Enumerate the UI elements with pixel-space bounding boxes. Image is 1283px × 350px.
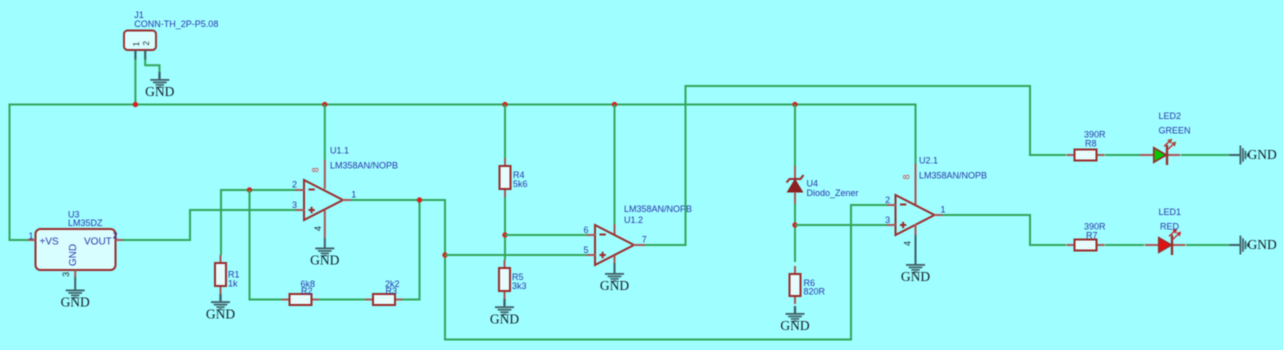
ground stem below R6 bbox=[794, 306, 796, 313]
wire U1.2 pin8 from VCC bus bbox=[614, 105, 616, 225]
LED LED1 RED bbox=[1145, 229, 1186, 255]
junction at R4/R5 divider to pin6 bbox=[502, 232, 507, 237]
svg-text:U1.2: U1.2 bbox=[624, 215, 643, 225]
ground GND symbol at U3 bbox=[61, 290, 90, 310]
wire U2.1 output to R7 LED1 row bbox=[943, 215, 1067, 245]
wire divider junction to U1.2 pin6 bbox=[505, 234, 587, 236]
svg-text:GREEN: GREEN bbox=[1159, 126, 1191, 136]
svg-text:GND: GND bbox=[1248, 237, 1277, 252]
wire LED1 to right ground bbox=[1186, 244, 1230, 246]
resistor R4 5k6 bbox=[500, 158, 511, 197]
svg-text:3: 3 bbox=[61, 272, 71, 277]
svg-text:GND: GND bbox=[780, 318, 809, 333]
wire VCC bus to R4 bbox=[504, 105, 506, 159]
svg-text:R8: R8 bbox=[1085, 139, 1097, 149]
pin stub U2.1 pin2 bbox=[887, 204, 897, 206]
svg-text:7: 7 bbox=[642, 235, 647, 245]
svg-text:LM358AN/NOPB: LM358AN/NOPB bbox=[919, 171, 987, 181]
diode U4 Diodo_Zener bbox=[787, 166, 804, 204]
ground GND symbol at R5 bbox=[490, 306, 519, 326]
junction on VCC bus at R4 drop bbox=[502, 102, 507, 107]
svg-text:R7: R7 bbox=[1086, 231, 1098, 241]
wire VCC bus with left drop to U3 pin1 and right drop to U2.1 pin8 bbox=[10, 105, 916, 241]
svg-text:LM358AN/NOPB: LM358AN/NOPB bbox=[624, 204, 692, 214]
resistor R3 2k2 bbox=[365, 294, 403, 305]
svg-text:2: 2 bbox=[113, 231, 118, 241]
svg-text:CONN-TH_2P-P5.08: CONN-TH_2P-P5.08 bbox=[134, 19, 218, 29]
junction on VCC bus at U4 drop bbox=[792, 102, 797, 107]
svg-text:3k3: 3k3 bbox=[512, 281, 527, 291]
svg-text:GND: GND bbox=[1248, 147, 1277, 162]
svg-text:8: 8 bbox=[310, 167, 320, 172]
ground GND symbol at R6 bbox=[780, 313, 809, 333]
pin stub U1.2 pin8 bbox=[614, 224, 616, 235]
svg-text:U2.1: U2.1 bbox=[919, 156, 938, 166]
svg-text:LM35DZ: LM35DZ bbox=[68, 218, 103, 228]
ground stem below R5 bbox=[503, 299, 505, 306]
op-amp U1.1 LM358AN/NOPB bbox=[304, 180, 343, 220]
svg-text:LED2: LED2 bbox=[1159, 111, 1182, 121]
svg-text:U1.1: U1.1 bbox=[330, 146, 349, 156]
resistor R2 6k8 bbox=[282, 294, 320, 305]
junction at pin5 branch bbox=[442, 252, 447, 257]
resistor R7 390R bbox=[1067, 240, 1105, 251]
svg-text:1: 1 bbox=[940, 205, 945, 215]
svg-text:2: 2 bbox=[142, 41, 151, 46]
wire U1.1 pin8 from VCC bus bbox=[324, 105, 326, 161]
svg-text:5: 5 bbox=[583, 245, 588, 255]
pin stub U2.1 pin3 bbox=[887, 224, 897, 226]
pin stub U3 pin2 bbox=[116, 239, 124, 241]
pin stub U2.1 pin4 to ground bbox=[915, 224, 917, 264]
wire from R3 up to U1.1 output bbox=[403, 200, 420, 300]
op-amp U2.1 LM358AN/NOPB bbox=[896, 195, 935, 235]
junction on VCC bus at J1 drop bbox=[133, 102, 138, 107]
wire J1 pin1 drop to VCC bus bbox=[134, 60, 136, 105]
wire R7 to LED1 bbox=[1105, 244, 1144, 246]
wire junction to U2.1 pin3 bbox=[795, 224, 887, 226]
pin stub U3 pin1 bbox=[28, 239, 36, 241]
ground GND symbol at U1.2 bbox=[600, 273, 629, 293]
svg-text:GND: GND bbox=[310, 253, 339, 268]
svg-text:820R: 820R bbox=[804, 287, 826, 297]
svg-text:2: 2 bbox=[292, 180, 297, 190]
svg-text:R2: R2 bbox=[301, 286, 313, 296]
resistor R6 820R bbox=[790, 266, 801, 304]
pin stub U1.1 pin4 to ground bbox=[324, 211, 326, 248]
svg-text:4: 4 bbox=[903, 241, 913, 246]
connector J1 body bbox=[124, 31, 156, 51]
wire feedback drop from pin2 junction to R2 bbox=[250, 190, 282, 300]
svg-text:U4: U4 bbox=[807, 179, 819, 189]
pin stub U1.1 pin2 bbox=[296, 189, 305, 191]
wire J1 pin2 to GND symbol bbox=[145, 60, 159, 73]
svg-text:RED: RED bbox=[1160, 222, 1180, 232]
connector J1 pin stubs bbox=[135, 50, 145, 60]
wire U1.1 output to pin5 branch and bottom run to U2.1 pin2 bbox=[351, 200, 887, 340]
wire U1.1 pin2 net to R1 top bbox=[221, 190, 296, 255]
svg-text:VOUT: VOUT bbox=[84, 237, 112, 248]
ground GND symbol at U2.1 bbox=[901, 264, 930, 284]
svg-text:1k: 1k bbox=[228, 279, 238, 289]
svg-text:3: 3 bbox=[885, 215, 890, 225]
svg-text:8: 8 bbox=[902, 174, 912, 179]
wire VCC bus down to U4 zener bbox=[794, 105, 796, 167]
svg-text:4: 4 bbox=[313, 226, 323, 231]
wire zener bottom through junction to R6 bbox=[794, 204, 796, 262]
svg-text:1: 1 bbox=[351, 189, 356, 199]
wire R4 bottom through pin6 junction to R5 bbox=[504, 197, 506, 260]
junction at U1.1 output / feedback bbox=[417, 197, 422, 202]
junction on VCC bus at U1.1 pin8 drop bbox=[322, 102, 327, 107]
svg-text:GND: GND bbox=[490, 312, 519, 327]
resistor R8 390R bbox=[1067, 150, 1105, 161]
pin stub U1.1 pin8 bbox=[324, 160, 326, 189]
ground GND stem at J1 bbox=[158, 72, 160, 80]
ground GND symbol right of LED2 bbox=[1230, 146, 1277, 165]
svg-text:LED1: LED1 bbox=[1159, 207, 1182, 217]
svg-text:1: 1 bbox=[28, 231, 33, 241]
svg-text:Diodo_Zener: Diodo_Zener bbox=[807, 188, 859, 198]
svg-text:+VS: +VS bbox=[40, 237, 60, 248]
svg-text:1: 1 bbox=[132, 41, 141, 46]
svg-text:LM358AN/NOPB: LM358AN/NOPB bbox=[330, 161, 398, 171]
svg-text:GND: GND bbox=[901, 269, 930, 284]
junction at zener / R6 / U2.1 pin3 bbox=[792, 222, 797, 227]
resistor R1 1k bbox=[215, 255, 226, 294]
svg-text:2: 2 bbox=[885, 195, 890, 205]
svg-text:R3: R3 bbox=[386, 286, 398, 296]
svg-text:GND: GND bbox=[600, 278, 629, 293]
IC U3 body LM35DZ bbox=[36, 229, 116, 270]
LED LED2 GREEN bbox=[1140, 139, 1181, 165]
wire VOUT of U3 to U1.1 pin3 bbox=[123, 210, 296, 240]
svg-text:GND: GND bbox=[145, 84, 174, 99]
ground GND symbol at J1 bbox=[145, 79, 174, 99]
svg-text:GND: GND bbox=[61, 295, 90, 310]
ground GND symbol at U1.1 bbox=[310, 248, 339, 268]
pin stub U2.1 pin8 from VCC bus drop bbox=[915, 164, 917, 206]
wire branch to U1.2 pin5 bbox=[445, 254, 587, 256]
junction on VCC bus at U1.2 pin8 drop bbox=[612, 102, 617, 107]
svg-text:GND: GND bbox=[68, 244, 79, 266]
wire R8 to LED2 bbox=[1105, 154, 1140, 156]
pin stub U1.2 output pin7 bbox=[633, 244, 645, 246]
pin stub U2.1 output pin1 bbox=[934, 214, 943, 216]
pin stub U1.1 pin3 bbox=[296, 209, 305, 211]
pin stub U1.2 pin4 to ground bbox=[614, 256, 616, 274]
svg-text:GND: GND bbox=[206, 306, 235, 321]
resistor R5 3k3 bbox=[499, 260, 510, 299]
svg-text:5k6: 5k6 bbox=[513, 179, 528, 189]
svg-text:6: 6 bbox=[583, 225, 588, 235]
pin stub U1.2 pin5 bbox=[587, 254, 596, 256]
junction at U1.1 pin2 / feedback tap bbox=[247, 187, 252, 192]
op-amp U1.2 LM358AN/NOPB bbox=[595, 225, 634, 265]
wire LED2 to right ground bbox=[1181, 154, 1230, 156]
pin stub U3 pin3 to ground bbox=[74, 270, 76, 290]
wire between R2 and R3 bbox=[319, 299, 365, 301]
svg-text:3: 3 bbox=[292, 200, 297, 210]
ground GND symbol at R1 bbox=[206, 301, 235, 321]
pin stub U1.2 pin6 bbox=[587, 234, 596, 236]
ground GND symbol right of LED1 bbox=[1230, 236, 1277, 255]
pin stub U1.1 output pin1 bbox=[342, 199, 351, 201]
ground stem below R1 bbox=[219, 294, 221, 301]
wire U1.2 output up to upper bus and down to R8 LED2 row bbox=[645, 86, 1066, 245]
